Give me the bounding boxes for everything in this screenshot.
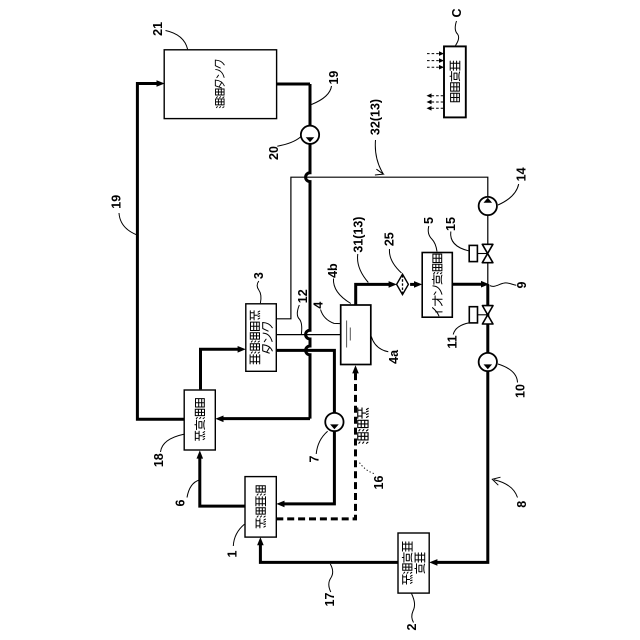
tank 21 storage (chozou tank) <box>164 50 276 119</box>
wire 12: tank 3 to tank 4 <box>276 334 340 336</box>
leader 14 <box>498 184 519 205</box>
arrow into tank 3 <box>238 346 246 353</box>
output arrowhead y=108.3 <box>427 106 432 111</box>
leader 6 <box>187 480 199 498</box>
strainer 25 diamond <box>397 274 409 294</box>
heat exchanger 18 box <box>184 390 215 450</box>
svg-text:18: 18 <box>152 453 166 467</box>
wire tank 3 via pump 7 to fuel cell <box>276 350 334 504</box>
svg-text:21: 21 <box>151 22 165 36</box>
wire 31(13): tank 4 to ion exchanger via strainer 25 <box>356 284 390 305</box>
pump 10 <box>479 353 497 371</box>
text heat exchanger 熱交換部 <box>195 399 205 441</box>
svg-text:C: C <box>450 8 464 17</box>
leader 5 <box>428 226 437 252</box>
svg-text:32(13): 32(13) <box>369 99 383 135</box>
leader 4 <box>321 310 341 324</box>
arrow into strainer 25 <box>389 281 397 288</box>
svg-text:2: 2 <box>405 623 419 630</box>
wire 13/8: junction 9 down via valve 11 and pump 10 to fuel processor 2 <box>436 284 488 562</box>
svg-text:19: 19 <box>327 71 341 85</box>
text condensate 凝縮水 <box>358 408 369 443</box>
fuel cell 1 box <box>245 477 276 537</box>
svg-text:6: 6 <box>174 499 188 506</box>
arrow into heat exchanger bottom <box>197 450 204 458</box>
leader 8 with open arrow <box>494 480 518 498</box>
svg-text:11: 11 <box>446 335 460 348</box>
leader C <box>455 21 458 46</box>
ion exchanger 5 box <box>422 253 452 318</box>
controller C box <box>444 46 466 117</box>
wire 32(13): makeup water line to column top <box>276 177 488 319</box>
wire fuel cell to heat exchanger bottom <box>200 457 245 506</box>
pump 20 <box>301 126 319 144</box>
svg-text:20: 20 <box>267 146 281 160</box>
wire ion exchanger out to junction 9 <box>452 283 481 286</box>
leader 31(13) <box>358 254 369 283</box>
tank 4 (4a/4b) recovered water tank <box>341 305 371 365</box>
text battery cooling water tank <box>250 311 272 364</box>
arrow condensate into tank 4a <box>352 365 359 373</box>
leader 2 <box>412 594 415 623</box>
pump 7 <box>325 413 343 431</box>
arrow into fuel cell right <box>276 501 284 508</box>
leader 18 <box>161 434 184 452</box>
leader 19 left <box>119 213 137 235</box>
wire 19 right: storage tank via pump 20 down to heat exchanger <box>275 83 310 86</box>
leader 20 <box>277 137 301 146</box>
leader 15 <box>451 232 469 251</box>
valve 15 <box>469 244 493 262</box>
leader 4b <box>333 279 350 304</box>
arrow into ion exchanger <box>414 281 422 288</box>
leader 9 squiggle <box>490 283 517 286</box>
svg-text:7: 7 <box>308 455 322 462</box>
input arrowhead y=53.6 <box>439 51 444 56</box>
leader 21 <box>166 31 188 50</box>
controller output signals (dashed arrows) <box>432 95 445 97</box>
svg-text:8: 8 <box>515 501 529 508</box>
wire 16: condensate (dashed) fuel cell to tank 4a <box>276 371 355 519</box>
svg-text:31(13): 31(13) <box>352 217 366 253</box>
text controller 制御装置 <box>450 61 460 102</box>
leader 17 <box>329 564 333 592</box>
output arrowhead y=102.0 <box>427 100 432 105</box>
svg-text:15: 15 <box>444 217 458 231</box>
svg-text:25: 25 <box>383 232 397 246</box>
arrow into fuel cell bottom <box>257 537 264 545</box>
text ion exchanger イオン交換部 <box>432 254 442 316</box>
input arrowhead y=60.6 <box>439 58 444 63</box>
input arrowhead y=67.2 <box>439 65 444 70</box>
svg-text:4: 4 <box>311 302 325 309</box>
text fuel cell 燃料電池 <box>256 486 266 528</box>
svg-text:12: 12 <box>296 289 310 303</box>
leader 12 <box>297 305 301 335</box>
svg-text:16: 16 <box>372 476 386 490</box>
svg-text:3: 3 <box>252 272 266 279</box>
arrow into fuel processor <box>429 559 437 566</box>
leader 11 <box>453 323 469 335</box>
svg-text:4b: 4b <box>326 263 340 278</box>
leader 1 <box>233 524 244 546</box>
tank 3 battery cooling water tank <box>246 304 276 372</box>
valve 11 <box>469 306 493 324</box>
leader 4a <box>371 337 388 352</box>
svg-text:19: 19 <box>110 195 124 209</box>
leader 16 dotted <box>358 461 373 474</box>
svg-text:1: 1 <box>226 550 240 557</box>
text storage tank 貯湯タンク <box>215 60 224 108</box>
wire 17: fuel processor to fuel cell bottom <box>260 543 398 562</box>
text fuel processor 燃料処理装置 <box>402 542 424 584</box>
fuel processor 2 box <box>398 533 429 593</box>
leader 7 <box>316 431 327 454</box>
leader 10 <box>498 364 518 383</box>
leader 32(13) with open arrow <box>375 140 383 174</box>
wire heat exchanger to cooling water tank 3 <box>201 349 240 389</box>
arrow into heat exchanger right <box>215 416 223 423</box>
svg-text:5: 5 <box>422 217 436 224</box>
svg-text:14: 14 <box>514 167 528 181</box>
svg-text:17: 17 <box>323 593 337 607</box>
arrow at junction 9 <box>481 281 489 288</box>
wire 19 left loop: heat exchanger to storage tank <box>137 84 184 420</box>
arrow into tank 21 <box>157 80 165 87</box>
svg-text:10: 10 <box>513 384 527 398</box>
output arrowhead y=95.7 <box>427 93 432 98</box>
leader 19 right <box>312 86 332 105</box>
controller input signals (dashed arrows) <box>427 53 440 55</box>
pump 14 <box>479 197 497 215</box>
svg-text:4a: 4a <box>387 349 401 364</box>
leader 25 <box>389 249 401 273</box>
svg-text:9: 9 <box>515 281 529 288</box>
leader 3 <box>257 281 261 303</box>
